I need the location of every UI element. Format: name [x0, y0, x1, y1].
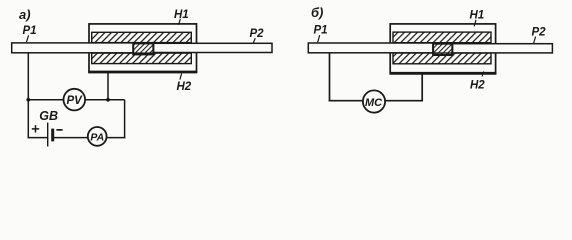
battery GB short plate (-): [51, 129, 54, 142]
wire bottom branch: battery GB to ammeter PA: [53, 137, 97, 139]
svg-text:H1: H1: [470, 9, 485, 21]
label P2 (left) with leader tick: [250, 28, 265, 44]
svg-text:H2: H2: [177, 81, 192, 93]
wire voltmeter branch (horizontal through PV): [28, 99, 124, 101]
svg-text:МС: МС: [365, 97, 383, 109]
svg-text:H1: H1: [174, 9, 189, 21]
label H1 (left) with leader tick: [174, 9, 189, 25]
svg-text:P2: P2: [532, 27, 547, 39]
wire bottom branch: ammeter PA to right corner: [97, 137, 125, 139]
svg-text:б): б): [311, 5, 323, 20]
wire from clamp body down to MC branch (right vertical): [421, 74, 423, 102]
rod P2 (left diagram): [153, 43, 272, 52]
clamp jaw H1 (left, hatched): [92, 32, 192, 42]
svg-text:GB: GB: [39, 109, 58, 123]
clamp body (right): [390, 24, 495, 74]
minus sign: [56, 129, 62, 131]
svg-text:а): а): [19, 7, 31, 22]
wire bottom branch: left corner to battery GB: [28, 137, 48, 139]
wire from rod P1 down to bottom branch (left vertical): [27, 53, 29, 139]
clamp body (left): [89, 24, 197, 72]
junction at left vertical / PV branch: [26, 98, 30, 102]
clamp jaw H1 (right, hatched): [393, 32, 491, 43]
wire from rod P1 down (right diagram left vertical): [329, 53, 331, 102]
label P1 (left) with leader tick: [23, 25, 37, 42]
label H2 (left) with leader tick: [177, 74, 192, 93]
rod P1 (left diagram): [12, 43, 134, 53]
clamp jaw H2 (right, hatched): [393, 53, 491, 64]
svg-text:PV: PV: [67, 95, 84, 107]
voltmeter PV: [64, 89, 86, 111]
label P1 (right) with leader tick: [314, 25, 328, 43]
svg-text:PA: PA: [90, 131, 104, 143]
wire from clamp body down to PV branch: [107, 72, 109, 100]
milliohmmeter MC: [363, 90, 385, 112]
clamp body bottom thick edge (left): [88, 71, 197, 74]
battery GB: [32, 109, 63, 147]
battery GB long plate (+): [47, 123, 49, 147]
svg-text:H2: H2: [470, 80, 485, 92]
clamp body bottom thick edge (right): [390, 72, 497, 75]
ammeter PA: [88, 127, 107, 146]
wire horizontal through MC: [329, 100, 423, 102]
clamp jaw H2 (left, hatched): [92, 53, 192, 64]
wire right vertical (PV branch corner down to PA): [124, 100, 126, 139]
svg-text:P1: P1: [314, 25, 328, 37]
junction at clamp wire / PV branch: [106, 98, 110, 102]
label H2 (right) with leader tick: [470, 71, 485, 91]
plus sign: [32, 128, 39, 130]
contact sample block (left): [133, 43, 153, 54]
contact sample block (right): [433, 44, 452, 55]
label H1 (right) with leader tick: [470, 9, 485, 26]
rod P2 (right diagram): [452, 44, 552, 53]
svg-text:P2: P2: [250, 28, 265, 40]
svg-text:P1: P1: [23, 25, 37, 37]
rod P1 (right diagram): [308, 43, 433, 53]
label P2 (right) with leader tick: [532, 27, 547, 44]
